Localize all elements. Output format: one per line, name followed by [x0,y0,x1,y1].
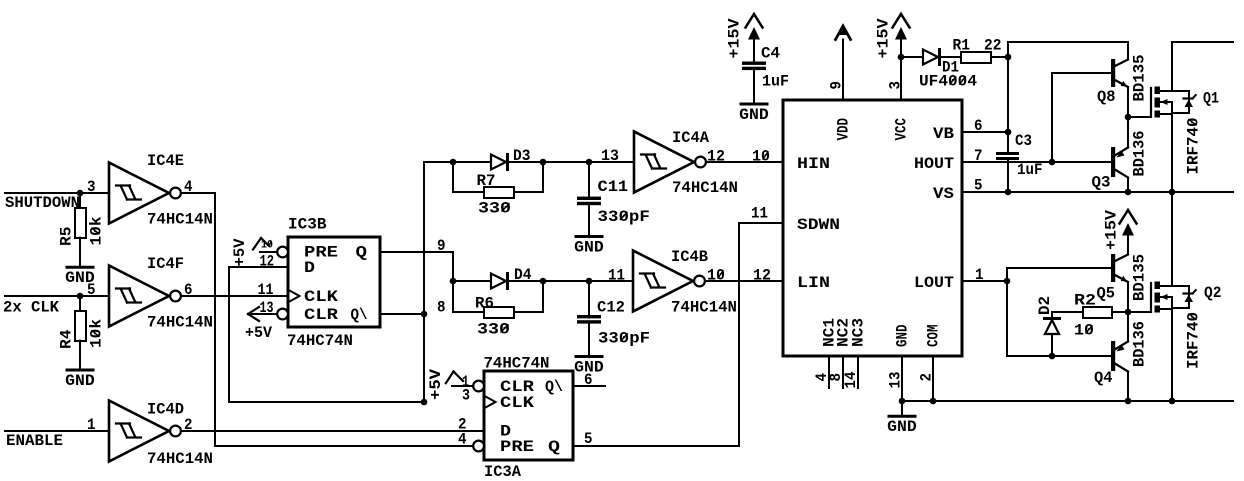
HOUT wire to Q8/Q3 bases [962,161,1111,163]
junction R1 output [1005,54,1012,61]
svg-text:IRF740: IRF740 [1185,118,1203,175]
resistor R6 right leg [514,281,543,312]
svg-text:VS: VS [933,185,954,203]
junction D4 anode / R6 [450,278,457,285]
junction VCC/D1 [898,54,905,61]
svg-text:74HC14N: 74HC14N [672,179,738,197]
capacitor C12 bottom wire [588,324,590,355]
svg-text:LIN: LIN [797,274,830,292]
svg-text:LOUT: LOUT [914,274,954,292]
junction 2xCLK/R4 [77,293,84,300]
svg-text:Q3: Q3 [1092,174,1111,192]
svg-text:11: 11 [751,205,768,223]
svg-text:Q: Q [356,244,368,262]
resistor R4 bottom wire [79,341,81,369]
svg-text:BD135: BD135 [1131,55,1149,102]
svg-text:IRF740: IRF740 [1185,312,1203,369]
wire D3 cathode [508,161,544,163]
svg-text:2x CLK: 2x CLK [3,299,60,317]
wire 2x CLK input [5,295,109,297]
IC3B PRE bubble [277,247,288,258]
capacitor C12 [577,315,601,318]
capacitor C3 bottom wire to VS [1007,160,1009,192]
svg-text:74HC14N: 74HC14N [147,211,213,229]
svg-text:R1: R1 [953,37,971,55]
IC3A CLR bubble [473,381,484,392]
diode D4 [491,274,506,289]
svg-text:Q4: Q4 [1094,369,1113,387]
svg-text:22: 22 [984,37,1002,55]
resistor R7 right leg [514,162,543,192]
svg-text:Q: Q [548,438,560,456]
NC1 pin stub [828,356,830,388]
+15V arrow above C4 [746,14,763,28]
svg-text:3: 3 [462,387,470,405]
svg-text:6: 6 [974,117,983,135]
svg-text:10: 10 [1074,322,1094,340]
junction Q4 collector / COM rail [1125,398,1132,405]
svg-text:BD136: BD136 [1131,321,1149,367]
svg-text:9: 9 [828,81,846,90]
svg-text:GND: GND [739,106,769,124]
gate driver IC box (IR2110) [783,100,962,356]
svg-text:IC4E: IC4E [147,152,184,170]
wire D3 anode [453,161,491,163]
resistor R7 body [484,187,514,198]
svg-text:C3: C3 [1015,132,1032,150]
svg-text:7: 7 [974,147,983,165]
inverter IC4B (74HC14N Schmitt trigger) [633,251,693,312]
wire Q3 emitter up to gate node [1127,117,1129,148]
+5V arrow at IC3A CLR [446,372,454,384]
svg-text:+5V: +5V [427,368,445,400]
wire bootstrap node down to VB and C3 [1007,57,1009,152]
svg-text:NC3: NC3 [850,318,868,347]
capacitor C4 bottom wire [753,70,755,102]
svg-text:3: 3 [87,178,96,196]
inverter IC4E (74HC14N Schmitt trigger) [109,163,169,224]
IC3B PRE pin stub [260,251,277,253]
VS rail [962,191,1233,193]
svg-text:Q2: Q2 [1204,284,1222,302]
resistor R6 body [484,307,514,318]
svg-text:COM: COM [925,325,943,348]
wire IC4D output to IC3A D [181,430,484,432]
svg-text:ENABLE: ENABLE [6,432,63,450]
VB pin stub [962,131,1008,133]
svg-text:+15V: +15V [1103,209,1121,250]
IC3A PRE bubble [473,441,484,452]
junction Q1 source / Q2 drain / VS [1169,189,1176,196]
flip-flop IC3A box (74HC74N) [484,371,573,460]
wire IC4A output to HIN [706,161,783,163]
ground below R5 [67,266,93,269]
svg-text:12: 12 [753,267,771,285]
svg-text:C11: C11 [598,178,629,196]
ground below R4 [67,369,93,372]
svg-text:13: 13 [601,147,619,165]
wire D1 to R1 [941,56,962,58]
resistor R6 left leg [453,281,484,312]
junction SHUTDOWN/R5 [77,190,84,197]
svg-text:IC3A: IC3A [484,463,522,481]
diode D1 [923,50,938,65]
junction Q2 source / COM rail [1169,398,1176,405]
transistor Q5 (BD135 NPN) [1111,254,1115,282]
capacitor C12 top wire [588,281,590,315]
svg-text:VB: VB [933,125,954,143]
junction Q5/Q4/R2/gate of Q2 [1125,309,1132,316]
flip-flop IC3B box (74HC74N) [288,237,380,327]
junction Q3 collector / VS [1125,189,1132,196]
IC3B CLK wedge [290,291,300,302]
svg-text:CLK: CLK [500,394,535,412]
svg-text:IC4A: IC4A [672,129,710,147]
inverter IC4D (74HC14N Schmitt trigger) [109,401,169,462]
junction HOUT / base tie [1049,159,1056,166]
svg-text:74HC14N: 74HC14N [147,450,213,468]
svg-text:VDD: VDD [835,118,853,141]
IC3B CLR pin stub with +5V left arrow [248,313,277,315]
svg-text:Q\: Q\ [545,378,563,396]
transistor Q2 (IRF740 N-MOSFET) [1128,311,1151,313]
svg-text:BD135: BD135 [1131,254,1149,301]
junction D3 anode / R7 [450,159,457,166]
wire LOUT down to Q4 base row [1007,281,1111,356]
svg-text:CLK: CLK [304,288,339,306]
inverter IC4A (74HC14N Schmitt trigger) [634,132,694,193]
GND pin stub [901,356,903,401]
capacitor C4 [742,62,766,65]
svg-text:IC4F: IC4F [147,255,184,273]
inverter IC4F (74HC14N Schmitt trigger) [109,266,169,327]
svg-text:GND: GND [65,372,95,390]
IC3A CLR stub [452,385,473,387]
junction Q8/Q3/gate of Q1 [1125,114,1132,121]
wire D4 anode [453,280,491,282]
wire bootstrap node up to Q8 collector rail [1008,42,1128,60]
wire D3 row to C11 [543,161,634,163]
svg-text:5: 5 [974,177,983,195]
diode D2 (vertical, cathode up) [1045,317,1060,320]
wire Q2 source to COM rail [1171,309,1173,401]
capacitor C11 bottom wire [588,205,590,235]
svg-text:74HC74N: 74HC74N [287,332,353,350]
wire Q5 emitter down to gate node [1127,282,1129,312]
svg-text:CLR: CLR [304,306,339,324]
svg-text:SHUTDOWN: SHUTDOWN [5,194,80,212]
junction COM pin / rail [930,398,937,405]
junction GND pin / rail [899,398,906,405]
wire IC4E output to IC3A PRE (vertical at x=215) [181,193,473,446]
capacitor C3 [996,152,1019,155]
resistor R5 body [75,208,86,238]
svg-text:D2: D2 [1036,296,1054,315]
svg-text:GND: GND [574,239,604,257]
svg-text:74HC74N: 74HC74N [484,355,550,373]
wire Q1 source to VS [1171,114,1173,192]
svg-text:IC3B: IC3B [288,216,327,234]
svg-text:11: 11 [608,267,625,285]
svg-text:Q5: Q5 [1097,285,1116,303]
VCC pin stub [900,57,902,100]
junction C12 top [586,278,593,285]
svg-text:Q1: Q1 [1203,90,1219,108]
wire Q4 collector down to COM rail [1127,372,1129,402]
ground below C4 [741,103,767,106]
resistor R7 left leg [453,162,484,192]
wire Q4 emitter up to gate node [1127,312,1129,342]
svg-text:11: 11 [258,281,274,299]
svg-text:GND: GND [887,418,917,436]
junction R7/D3 cathode [540,159,547,166]
wire VCC node to D1 [901,56,923,58]
junction LOUT [1004,278,1011,285]
+15V arrow above VCC [893,14,910,28]
svg-text:2: 2 [918,373,936,382]
transistor Q8 (BD135 NPN) [1111,59,1115,87]
svg-text:SDWN: SDWN [797,216,840,234]
junction R6/D4 cathode [540,278,547,285]
svg-text:R4: R4 [58,330,76,350]
svg-text:74HC14N: 74HC14N [671,299,737,317]
svg-text:D3: D3 [513,147,531,165]
svg-text:14: 14 [842,372,860,389]
svg-text:R5: R5 [58,227,76,247]
ground below C11 [576,235,602,238]
svg-text:Q\: Q\ [351,306,368,324]
svg-text:UF4004: UF4004 [919,73,977,91]
junction D2 anode / Q4 base row [1049,353,1056,360]
svg-text:330: 330 [477,321,510,339]
junction VB/C3 [1005,129,1012,136]
transistor Q1 (IRF740 N-MOSFET) [1128,116,1151,118]
svg-text:4: 4 [458,431,467,449]
svg-text:74HC14N: 74HC14N [147,314,213,332]
svg-text:3: 3 [887,81,905,90]
svg-text:330: 330 [478,200,511,218]
resistor R4 body [75,311,86,341]
wire ENABLE input [5,430,109,432]
diode D2 anode wire [1051,334,1053,356]
resistor R5 top wire [79,193,81,208]
svg-text:D4: D4 [514,266,532,284]
wire base tie up to Q8 base [1052,73,1111,162]
ground at IC GND/COM [889,415,915,418]
svg-text:10: 10 [752,148,770,166]
junction C11 top [586,159,593,166]
svg-text:+5V: +5V [245,324,273,342]
GND stub below rail [901,401,903,415]
svg-text:IC4D: IC4D [147,401,184,419]
svg-text:5: 5 [87,281,96,299]
IC3B CLR bubble [277,309,288,320]
transistor Q3 (BD136 PNP) [1111,147,1115,177]
wire IC4B output to LIN [705,280,783,282]
svg-text:13: 13 [887,372,905,389]
wire D4 cathode [508,280,544,282]
wire IC4F output to IC3B CLK [181,295,288,297]
svg-text:BD136: BD136 [1131,131,1149,177]
NC2 pin stub [842,356,844,388]
wire IC3A Q (pin 5) to SDWN [573,223,783,446]
IC3A CLK wedge [486,397,496,408]
svg-text:+15V: +15V [875,18,893,59]
LOUT pin stub [962,280,1007,282]
svg-text:PRE: PRE [500,438,534,456]
svg-text:1uF: 1uF [1017,161,1043,179]
capacitor C11 top wire [588,162,590,197]
resistor R5 bottom wire [79,238,81,266]
svg-text:+15V: +15V [726,18,744,59]
+5V arrow at IC3B PRE [253,238,261,250]
resistor R2 body [1083,307,1112,318]
svg-text:1uF: 1uF [762,73,789,91]
svg-text:IC4B: IC4B [671,248,708,266]
wire R2 to gate node [1112,311,1128,313]
wire IC3B Q to D4 row [380,252,453,281]
wire Q1 drain to top bus [1172,42,1233,91]
ground below C12 [576,355,602,358]
wire R1 to bootstrap node [991,56,1008,58]
svg-text:1: 1 [975,266,984,284]
svg-text:Q8: Q8 [1097,88,1116,106]
wire D4 row to IC4B [543,280,633,282]
svg-text:R6: R6 [475,295,494,313]
junction at IC3A CLK row [421,399,428,406]
COM pin stub [932,356,934,401]
+15V arrow above Q5 [1120,210,1137,224]
COM rail (bottom bus) [902,400,1233,402]
wire Q8 emitter down to gate node [1127,88,1129,118]
svg-text:R7: R7 [477,172,496,190]
svg-text:R2: R2 [1074,292,1096,310]
resistor R4 top wire [79,296,81,311]
wire IC3B Q-bar to vertical x=424 [380,313,424,315]
svg-text:+5V: +5V [231,238,249,267]
svg-text:8: 8 [437,299,446,317]
VDD pin stub with +5V arrow [836,26,851,40]
junction C3/VS [1005,189,1012,196]
resistor R1 body [961,52,991,63]
junction Q-bar vertical [421,311,428,318]
wire Q2 drain to VS [1171,192,1173,286]
wire vertical x=424 (Q-bar net up to D3 row, down to IC3A CLK) [424,162,453,402]
IC3A Q-bar stub (pin 6) [573,385,605,387]
svg-text:C12: C12 [597,299,625,317]
diode D3 [491,155,506,170]
capacitor C11 [577,197,601,200]
svg-text:HIN: HIN [797,155,830,173]
svg-text:VCC: VCC [893,118,911,141]
wire IC3B D loop (D to CLR-row corner) [229,267,424,402]
diode D2 cathode wire [1052,312,1083,318]
svg-text:GND: GND [894,325,912,348]
svg-text:1: 1 [87,416,96,434]
wire SHUTDOWN input [5,192,109,194]
wire LOUT up to Q5 base [1007,268,1111,281]
svg-text:HOUT: HOUT [914,155,954,173]
svg-text:C4: C4 [761,45,780,63]
transistor Q4 (BD136 PNP) [1111,341,1115,371]
NC3 pin stub [857,356,859,388]
wire Q3 collector down to VS [1127,178,1129,193]
svg-text:D: D [304,259,315,277]
